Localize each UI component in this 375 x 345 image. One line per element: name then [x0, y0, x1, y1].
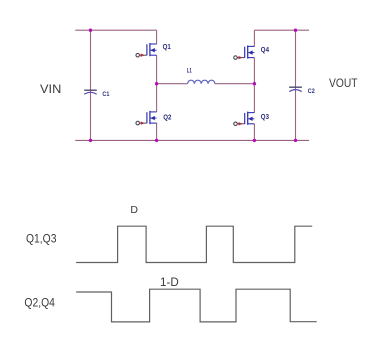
waveform Q2,Q4 gate signal: [76, 289, 317, 322]
capacitor C1 branch wire: [90, 30, 92, 140]
svg-text:1-D: 1-D: [160, 277, 179, 289]
inductor L1: [188, 80, 215, 84]
junction C1 top: [89, 29, 92, 32]
svg-text:Q2,Q4: Q2,Q4: [24, 298, 55, 310]
junction C2 bottom: [294, 139, 297, 142]
waveform Q1,Q3 gate signal: [76, 226, 312, 262]
svg-text:C1: C1: [102, 91, 109, 98]
svg-text:VIN: VIN: [40, 82, 61, 96]
svg-text:VOUT: VOUT: [329, 76, 358, 90]
svg-text:D: D: [130, 204, 138, 216]
transistor Q2: [136, 111, 157, 125]
transistor Q3: [234, 112, 255, 126]
svg-text:Q3: Q3: [261, 112, 269, 121]
wire Q1 drain drop: [156, 30, 158, 44]
junction Q3 source at ground: [253, 139, 256, 142]
junction C2 top: [294, 29, 297, 32]
wire Q2 source to ground rail: [156, 123, 158, 140]
svg-text:Q1: Q1: [163, 42, 171, 51]
wire node SW1 to L1: [157, 83, 188, 85]
wire L1 to node SW2: [215, 83, 255, 85]
transistor Q1: [136, 43, 157, 57]
wire Q4 drain drop: [253, 30, 255, 46]
junction Q2 source at ground: [155, 139, 158, 142]
junction node SW1: [155, 82, 158, 85]
transistor Q4: [234, 45, 255, 59]
wire VOUT+ top rail right: [254, 29, 309, 31]
svg-text:Q4: Q4: [261, 45, 270, 54]
capacitor C2: [289, 87, 302, 91]
junction C1 bottom: [89, 139, 92, 142]
wire Q1 source / Q2 drain: [156, 55, 158, 112]
wire ground bottom rail: [75, 139, 309, 141]
svg-text:L1: L1: [187, 69, 192, 75]
wire VIN+ top rail left: [75, 29, 156, 31]
svg-text:Q2: Q2: [163, 112, 171, 121]
junction node SW2: [253, 82, 256, 85]
svg-text:C2: C2: [308, 88, 315, 95]
svg-text:Q1,Q3: Q1,Q3: [26, 234, 57, 246]
capacitor C2 branch wire: [295, 30, 297, 140]
wire Q3 source to ground rail: [253, 124, 255, 140]
wire Q4 source / Q3 drain: [253, 58, 255, 113]
capacitor C1: [84, 90, 97, 94]
